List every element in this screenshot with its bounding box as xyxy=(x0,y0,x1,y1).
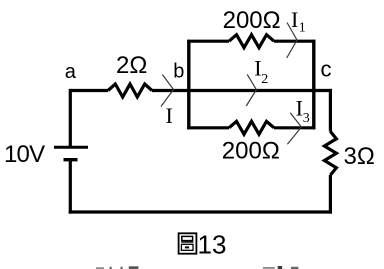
current arrow I chevron at node b xyxy=(161,75,174,107)
svg-text:1: 1 xyxy=(299,21,306,36)
resistor R2 200Ω (top) zigzag xyxy=(229,35,274,48)
svg-text:3: 3 xyxy=(303,111,310,126)
svg-text:200Ω: 200Ω xyxy=(222,138,280,165)
caption glyph 圖 (drawn) xyxy=(179,233,197,253)
wire battery to bottom rail xyxy=(69,160,72,214)
parallel box right edge xyxy=(312,40,315,130)
svg-text:2: 2 xyxy=(261,72,268,87)
svg-text:200Ω: 200Ω xyxy=(223,7,281,34)
wire R4 to bottom rail xyxy=(329,175,332,214)
resistor R1 2Ω zigzag xyxy=(108,84,152,97)
node b vertical: parallel box left edge xyxy=(187,40,190,130)
current arrow I3 chevron (bottom branch) xyxy=(287,113,301,145)
battery V1 short plate xyxy=(64,158,78,161)
wire a to R1 left lead xyxy=(70,89,108,92)
wire R1 to node b and middle branch to node c corner xyxy=(152,89,332,92)
cut-off next-line text marks (left group) xyxy=(96,266,138,269)
wire top branch right xyxy=(274,40,315,43)
wire bottom branch right xyxy=(274,126,315,129)
svg-text:c: c xyxy=(321,57,332,82)
cut-off next-line text marks (right group) xyxy=(263,266,299,269)
svg-text:3Ω: 3Ω xyxy=(344,143,375,170)
svg-text:I: I xyxy=(166,103,173,128)
wire node c corner down to R4 xyxy=(329,89,332,132)
wire top branch left xyxy=(187,40,229,43)
svg-text:13: 13 xyxy=(198,230,227,260)
svg-text:a: a xyxy=(65,61,77,83)
svg-text:2Ω: 2Ω xyxy=(116,52,147,79)
wire bottom branch left xyxy=(187,126,229,129)
svg-text:b: b xyxy=(173,61,184,83)
current arrow I2 chevron (middle branch) xyxy=(246,74,256,106)
battery V1 long plate xyxy=(54,146,88,149)
current arrow I1 chevron (top branch) xyxy=(287,23,297,59)
resistor R4 3Ω vertical zigzag xyxy=(324,132,336,176)
bottom rail wire xyxy=(69,210,332,213)
svg-text:10V: 10V xyxy=(4,141,45,168)
svg-text:I: I xyxy=(291,7,298,32)
wire left vertical from node a down to battery xyxy=(69,89,72,147)
resistor R3 200Ω (bottom) zigzag xyxy=(229,121,274,134)
